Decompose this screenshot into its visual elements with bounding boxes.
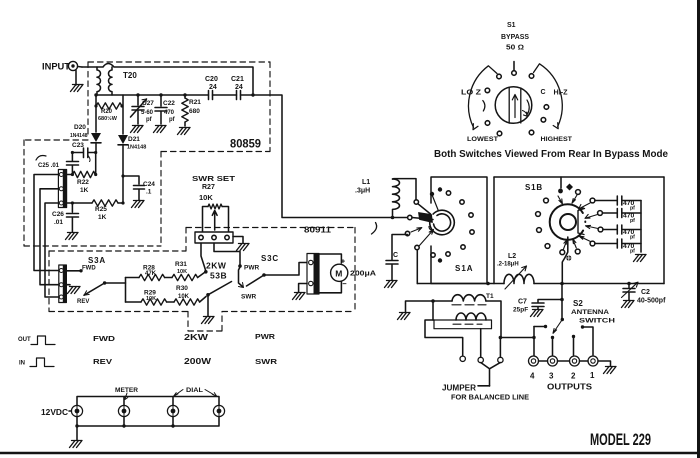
contact S1B left4 [545, 244, 550, 249]
meter polarity marks [342, 260, 347, 284]
svg-text:REV: REV [77, 299, 89, 305]
svg-text:PWR: PWR [244, 265, 259, 272]
wiper feed w1 [414, 200, 418, 204]
wire jack2 stub [572, 335, 575, 338]
contact S1 right [544, 105, 549, 110]
S1 small curved arrow [523, 111, 528, 117]
svg-text:80911: 80911 [304, 226, 332, 235]
wire slider to meter top [319, 254, 341, 263]
svg-text:C2: C2 [641, 289, 650, 296]
arrow into rotor from top [558, 196, 562, 204]
waveform IN pulse [30, 358, 54, 367]
arrow METER to lamp2 [125, 393, 128, 400]
wire strip to 2KW contact [201, 243, 206, 270]
capacitor C21 [237, 91, 241, 100]
node lamp3 bottom [171, 424, 174, 427]
svg-text:pf: pf [630, 218, 635, 224]
svg-text:50 Ω: 50 Ω [506, 45, 524, 52]
node C27 tap [136, 93, 139, 96]
switch S3A slider [59, 265, 67, 303]
node T20 bottom [94, 93, 97, 96]
rotor S1B gap lines [578, 209, 585, 235]
dashed detector box inner right [160, 152, 162, 247]
svg-text:OUTPUTS: OUTPUTS [547, 383, 593, 392]
node D20-C23 [94, 151, 97, 154]
arrow into rotor bottom right [573, 239, 577, 248]
contact S1A t2 filled [438, 187, 442, 191]
contact S1B left2 [536, 212, 541, 217]
box S1A [431, 177, 487, 284]
node stem bottom [560, 282, 564, 286]
svg-text:.1: .1 [146, 189, 152, 196]
svg-text:1: 1 [590, 371, 595, 380]
contact S1A t1 filled [430, 192, 434, 196]
capacitor C25 [67, 153, 79, 175]
wire S3B pivot to ground [207, 295, 209, 316]
node C23-C25 [71, 151, 74, 154]
contact FWD [66, 270, 79, 272]
svg-text:200μA: 200μA [350, 269, 377, 278]
svg-text:R22: R22 [77, 179, 89, 186]
mark paren mid [372, 223, 377, 235]
svg-text:pf: pf [630, 235, 635, 241]
contact S1B bottom open left [560, 250, 565, 255]
wire bottom divider row [126, 297, 207, 303]
pot R27 terminal strip [195, 232, 233, 243]
box S1B top [494, 176, 664, 178]
wire throw1 branch [581, 325, 584, 328]
svg-text:INPUT: INPUT [42, 62, 71, 72]
contact S1B bottom open right [575, 249, 580, 254]
core T1 dashes lower [453, 323, 482, 325]
resistor R29 [141, 299, 167, 305]
svg-text:T1: T1 [486, 293, 494, 300]
dashed box 80911 top-left [49, 250, 186, 252]
capacitor C2 variable [623, 284, 635, 301]
svg-text:1N4148: 1N4148 [127, 145, 146, 151]
wire top rail with hop [82, 64, 253, 94]
svg-text:R20: R20 [101, 109, 113, 115]
svg-text:C20: C20 [205, 76, 218, 83]
capacitor bank row2 contact [598, 211, 603, 216]
bottom rail wire with L2 [417, 283, 664, 285]
node C21 junction [251, 93, 254, 96]
ground meter slider [299, 284, 307, 293]
wire slider to meter bottom [319, 282, 341, 293]
node PWR contact [238, 264, 242, 268]
wire secondary right drop [480, 329, 482, 357]
svg-text:SWR: SWR [255, 357, 278, 366]
dashed box 80911 right [354, 228, 356, 312]
wiper feed w3 (from cap C) with arrow [405, 231, 409, 235]
ground C2 [622, 301, 635, 308]
wire throw3 to jack3 [552, 338, 554, 356]
mark paren left [483, 101, 485, 112]
wire throw4 branch [534, 326, 544, 328]
wire lamp bus top rail [77, 397, 219, 406]
svg-text:C21: C21 [231, 76, 244, 83]
lamp DS3 [167, 405, 178, 416]
svg-text:24: 24 [235, 84, 243, 91]
capacitor bank row1 contact [590, 198, 595, 203]
jack OUTPUT 2 [570, 356, 580, 366]
wire secondary left drop [425, 320, 463, 356]
box T1 secondary [434, 320, 492, 329]
contact S1B left3 [537, 228, 542, 233]
contact S1A t3 [446, 191, 450, 195]
contact S1A t5 [469, 213, 473, 217]
svg-text:D20: D20 [74, 124, 86, 131]
svg-text:SWITCH: SWITCH [579, 318, 615, 325]
svg-text:S3C: S3C [261, 254, 279, 263]
arrow into rotor bottom left [564, 240, 568, 249]
svg-text:C25 .01: C25 .01 [38, 163, 60, 169]
wiper blob wedge [419, 213, 433, 223]
contact S1A t4 [460, 200, 464, 204]
wire 12VDC feed [69, 410, 71, 412]
lamp DS1 [71, 405, 82, 416]
capacitor C22 [155, 95, 167, 124]
svg-text:pf: pf [630, 206, 635, 212]
node S2 pivot [561, 318, 564, 321]
ground below input [75, 71, 77, 86]
svg-text:pf: pf [630, 249, 635, 255]
capacitor C20 [209, 91, 213, 100]
terminal post C [498, 357, 503, 362]
wire REV arm to divider [105, 282, 126, 284]
switch arm S3B [206, 293, 210, 297]
switch arm S3A REV [103, 281, 106, 284]
ground C7 [531, 310, 544, 317]
dashed detector box step left [24, 139, 88, 141]
svg-text:24: 24 [209, 84, 217, 91]
node 2KW contact [204, 270, 208, 274]
svg-text:HIGHEST: HIGHEST [541, 136, 573, 143]
contact S1B stem filled cross [566, 255, 571, 260]
ground C26 [66, 233, 79, 240]
svg-text:C24: C24 [143, 181, 155, 188]
wire slider row3 to S3A [45, 203, 59, 297]
wire D20 drop [95, 95, 97, 132]
capacitor C27 variable [132, 95, 144, 124]
contact S1 bottom-right [529, 130, 534, 135]
svg-text:D21: D21 [128, 136, 140, 143]
node lamp1 bottom [75, 424, 78, 427]
svg-text:470: 470 [164, 110, 175, 116]
switch arm S3C [262, 273, 266, 277]
svg-text:R30: R30 [176, 285, 188, 292]
wire slider row1 to S3A [34, 175, 59, 271]
SECTION:DASHBOXES [24, 62, 355, 331]
svg-text:C22: C22 [163, 100, 175, 107]
wire capacitor bank bus [640, 201, 642, 253]
svg-text:10K: 10K [178, 294, 190, 300]
transformer T1 secondary [456, 313, 486, 320]
ground S3A [66, 284, 70, 286]
lamp DS2 [118, 405, 129, 416]
arc rotation right with arrow [534, 64, 563, 127]
node L2 left [486, 282, 490, 286]
hook mark near C25 [36, 156, 46, 161]
wire D21 drop [122, 95, 124, 134]
contact S1A t7 [461, 245, 465, 249]
svg-text:LO Z: LO Z [461, 90, 482, 97]
dashed detector box left edge [23, 140, 25, 246]
bottom page border [0, 452, 700, 454]
dashed detector box bottom [24, 245, 161, 247]
dashed box 80911 bottom [49, 312, 355, 332]
wiper feed w4 [415, 245, 419, 249]
switch slider meter select [307, 254, 319, 295]
right page border [697, 0, 700, 458]
svg-text:HI-Z: HI-Z [554, 90, 569, 97]
arrow DIAL to lamp4 [205, 390, 217, 397]
ground T1 [398, 313, 411, 320]
wire D20 line to R22 [95, 153, 97, 175]
node C25-R22 [71, 173, 74, 176]
jack OUTPUT 1 [588, 356, 598, 366]
svg-text:3: 3 [549, 372, 554, 381]
svg-text:SWR SET: SWR SET [192, 174, 236, 183]
wire divider vertical [125, 278, 127, 303]
resistor R30 [174, 299, 200, 305]
svg-text:S1B: S1B [525, 183, 543, 192]
wiper feed w2 (from main bus) [408, 215, 412, 219]
svg-text:S3A: S3A [88, 256, 106, 265]
S1 knob arrow [512, 95, 517, 118]
contact S1A t8 [446, 252, 450, 256]
arrow into rotor from top-right [572, 195, 577, 203]
node T1 left tap [431, 299, 435, 303]
node C2 tap [627, 282, 631, 286]
wire strip to PWR contact [214, 243, 240, 265]
contact S1 upper-left [497, 74, 502, 79]
node D21-C24 [121, 174, 124, 177]
svg-text:C: C [393, 252, 398, 259]
wire R22 junction to slider [67, 174, 73, 176]
wire input to top rail [78, 66, 82, 69]
svg-text:200W: 200W [184, 356, 212, 366]
svg-text:C: C [541, 89, 546, 96]
arrow L2 variable [505, 266, 527, 289]
arrow DIAL to lamp3 [174, 390, 184, 397]
wire w4 down to bottom rail [416, 250, 418, 284]
contact S1B top-right [576, 190, 581, 195]
svg-text:12VDC: 12VDC [41, 408, 68, 417]
svg-text:T20: T20 [123, 71, 137, 80]
svg-text:FOR BALANCED LINE: FOR BALANCED LINE [451, 393, 529, 402]
contact S1A t6 [470, 230, 474, 234]
resistor R20 [96, 103, 122, 109]
svg-text:DIAL: DIAL [186, 387, 203, 394]
svg-text:1N4148: 1N4148 [70, 133, 88, 139]
svg-text:C26: C26 [52, 211, 64, 218]
wire L1 top to S1A [393, 179, 417, 200]
node C26 tap [71, 201, 74, 204]
svg-text:680½W: 680½W [98, 115, 118, 122]
svg-text:5-60: 5-60 [141, 110, 154, 116]
pot R27 wiper arrow [212, 211, 217, 231]
transformer T20 secondary winding [109, 67, 113, 95]
svg-text:PWR: PWR [255, 332, 276, 341]
contact S1B diamond [566, 184, 573, 191]
svg-text:40-500pf: 40-500pf [637, 298, 666, 305]
contact S1B left1 [544, 198, 549, 203]
svg-text:FWD: FWD [82, 266, 96, 272]
svg-text:S1A: S1A [455, 264, 474, 273]
dashed box 80911 step [185, 228, 187, 252]
arc rotation left with arrow [469, 66, 497, 128]
svg-text:L1: L1 [362, 179, 370, 186]
transformer T1 primary [452, 295, 486, 301]
svg-text:MODEL 229: MODEL 229 [590, 430, 651, 449]
dashed box 80859 left [87, 62, 89, 138]
wire lamp bus bottom rail [77, 417, 219, 427]
ground capacitor bank [634, 255, 647, 262]
svg-text:25pF: 25pF [513, 307, 528, 314]
ground R21 [178, 128, 191, 135]
wire PWR contact down to SWR [239, 267, 243, 287]
svg-text:80859: 80859 [230, 139, 261, 151]
svg-text:JUMPER: JUMPER [442, 384, 476, 393]
dashed box 80859 right [269, 62, 271, 152]
svg-text:FWD: FWD [93, 334, 116, 343]
S1 small arc mark right [527, 100, 529, 114]
node R21 tap [183, 93, 186, 96]
svg-text:4: 4 [530, 372, 535, 381]
svg-text:2: 2 [571, 372, 576, 381]
svg-text:53B: 53B [210, 271, 227, 281]
svg-text:M: M [335, 268, 342, 278]
svg-text:R21: R21 [189, 99, 201, 106]
dashed box 80911 left [48, 251, 50, 312]
wire jack bus [539, 361, 611, 366]
svg-text:680: 680 [189, 108, 200, 115]
svg-text:47K: 47K [145, 271, 157, 277]
node S2 throw3 [551, 336, 554, 339]
contact S1 top [512, 71, 517, 76]
rotor S1B stem top [560, 177, 562, 188]
svg-text:S2: S2 [573, 299, 583, 308]
wire R25 row [67, 202, 123, 204]
jumper wire [481, 363, 500, 386]
contact S1 left (LO Z) [485, 88, 490, 93]
ground C24 [132, 201, 145, 208]
pot R27 right lead [222, 207, 228, 233]
ground outputs [604, 367, 617, 374]
jack OUTPUT 4 [529, 356, 539, 366]
S1 knob body [495, 87, 532, 124]
wire tap to secondary [432, 301, 434, 320]
resistor R25 [92, 200, 118, 206]
svg-text:10K: 10K [199, 193, 213, 202]
dashed box 80859 top [88, 61, 270, 63]
svg-text:C7: C7 [518, 299, 527, 306]
svg-text:IN: IN [19, 361, 25, 367]
capacitor C24 [123, 176, 145, 200]
switch arm S2 [553, 320, 562, 334]
capacitor bank row3 contact [598, 227, 603, 232]
contact S1 lower-right [541, 118, 546, 123]
svg-text:R25: R25 [95, 206, 107, 213]
wire main bus y95 [96, 94, 253, 96]
svg-text:OUT: OUT [18, 337, 31, 343]
wire T1 primary left [406, 301, 453, 312]
svg-text:BYPASS: BYPASS [501, 34, 529, 41]
svg-text:.01: .01 [54, 219, 63, 226]
resistor R21 [184, 95, 186, 98]
svg-text:2KW: 2KW [184, 332, 209, 342]
dashed box 80911 top-right [186, 227, 355, 229]
svg-text:10K: 10K [146, 296, 156, 302]
waveform OUT pulse [31, 336, 55, 345]
contact S1A t10 [431, 253, 435, 257]
potentiometer R27 body [208, 204, 222, 209]
box S1B left partial [493, 177, 495, 284]
wire from C21 corner down and across [253, 95, 407, 218]
svg-text:.2-18μH: .2-18μH [497, 262, 519, 268]
terminal post B [478, 357, 483, 362]
node C22 tap [159, 93, 162, 96]
S1 knob tick top [513, 62, 515, 71]
resistor R28 [139, 274, 165, 280]
wire T1 to jack4 [501, 338, 534, 356]
svg-text:pf: pf [169, 117, 176, 123]
svg-text:1K: 1K [80, 187, 89, 194]
contact S1 upper-right [529, 74, 534, 79]
node lamp2 bottom [122, 424, 125, 427]
wire T1 primary right [486, 301, 501, 338]
capacitor C7 [560, 298, 564, 302]
svg-text:R31: R31 [175, 261, 187, 268]
svg-text:2KW: 2KW [206, 261, 227, 271]
capacitor bank row4 contact [590, 241, 595, 246]
box S1B right [663, 177, 665, 284]
svg-text:C23: C23 [72, 142, 84, 149]
wire contact t1 to rotor [433, 196, 439, 211]
ground pot strip [233, 237, 243, 244]
wire post C stub [499, 338, 501, 358]
svg-text:REV: REV [93, 357, 112, 366]
svg-text:S1: S1 [507, 22, 516, 29]
rotor S1B stem bottom [562, 237, 568, 284]
svg-text:10K: 10K [177, 269, 187, 275]
ground 12VDC [76, 426, 78, 440]
svg-text:ANTENNA: ANTENNA [571, 309, 609, 316]
contact S1A t9 filled [438, 258, 442, 262]
svg-text:pf: pf [146, 117, 153, 123]
svg-text:.3μH: .3μH [355, 188, 370, 195]
meter M1 [331, 264, 348, 281]
svg-text:LOWEST: LOWEST [467, 136, 499, 143]
dashed box 80859 bottom [161, 151, 270, 153]
wire S3C arm to meter slider [264, 263, 307, 276]
wire D21 to R25 [122, 176, 124, 203]
diode D20 [91, 133, 101, 142]
svg-text:1K: 1K [98, 214, 107, 221]
ground C27 [131, 126, 144, 133]
S1 knob slot [509, 88, 521, 123]
connector J1 input jack [68, 61, 77, 70]
svg-text:R27: R27 [202, 184, 215, 191]
transformer T20 primary winding [96, 67, 101, 95]
terminal post A [460, 356, 465, 361]
pot R27 left lead [203, 207, 209, 233]
rotor S1A [426, 206, 458, 238]
contact S1B top filled [558, 189, 563, 194]
wire antenna feed [561, 284, 563, 319]
contact S1 bottom-left [497, 131, 502, 136]
